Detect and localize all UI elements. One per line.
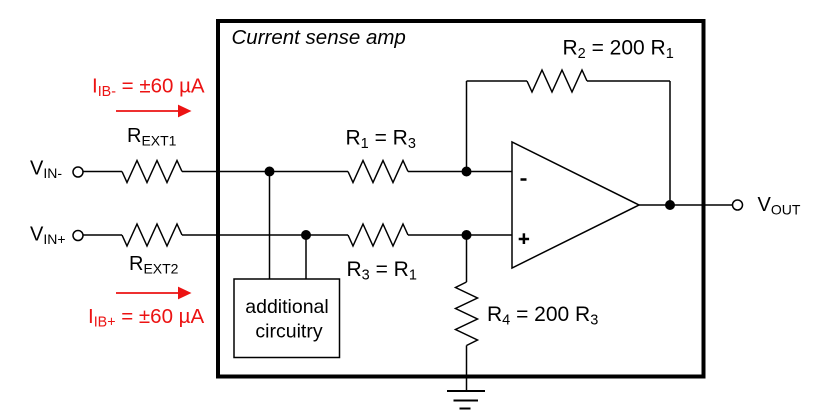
svg-text:R3 = R1: R3 = R1 (347, 258, 417, 284)
svg-text:circuitry: circuitry (255, 321, 322, 343)
svg-text:R1 = R3: R1 = R3 (346, 127, 416, 153)
svg-text:Current sense amp: Current sense amp (232, 26, 406, 49)
svg-text:additional: additional (245, 296, 328, 318)
